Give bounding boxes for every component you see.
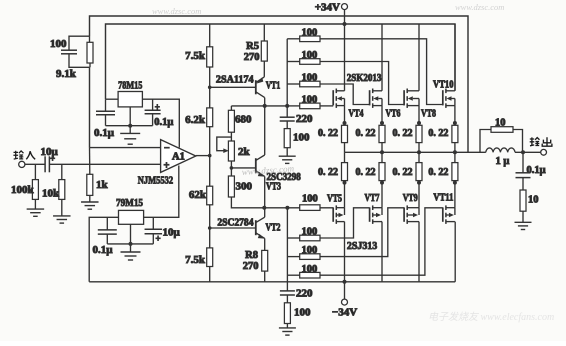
ground (10k)	[61, 199, 63, 216]
resistor 7.5k (upper)	[207, 47, 213, 67]
svg-text:270: 270	[244, 52, 260, 63]
wire: 79M15 output to op-amp V-	[144, 166, 179, 218]
svg-text:VT3: VT3	[266, 182, 281, 193]
svg-text:100: 100	[302, 50, 318, 61]
node: N gate bus bottom junction	[285, 104, 289, 108]
wire: VT6 source	[381, 106, 383, 123]
svg-text:VT6: VT6	[386, 108, 401, 119]
wire: 0.22 to output rail	[381, 143, 383, 153]
ground (100k)	[34, 199, 36, 209]
svg-text:7.5k: 7.5k	[185, 254, 206, 266]
wire: -34V to 79M15 input	[89, 217, 118, 281]
svg-text:10: 10	[495, 118, 506, 129]
resistor 10 (parallel with inductor)	[480, 130, 523, 153]
svg-text:270: 270	[243, 261, 259, 272]
ground (79M15)	[121, 251, 141, 253]
svg-text:www.dzsc.com: www.dzsc.com	[455, 2, 504, 12]
transistor VT6 2SK2013 (N-MOSFET)	[369, 90, 371, 105]
node: VT11 source junction	[453, 181, 457, 185]
svg-text:+: +	[156, 234, 161, 244]
transistor VT3 2SC3298 (NPN)	[255, 158, 257, 173]
capacitor 220 (N gate bus bypass)	[286, 106, 288, 117]
node: P gate bus top junction	[285, 206, 289, 210]
svg-text:10: 10	[528, 195, 539, 206]
svg-text:220: 220	[296, 288, 313, 300]
watermark (faint)	[152, 2, 554, 323]
capacitor 0.1u (78M15 input)	[105, 99, 107, 111]
node: VT3 emitter / VT2 collector junction	[262, 206, 266, 210]
resistor R8 270	[262, 250, 268, 271]
transistor VT2 2SC2784 (NPN)	[255, 220, 257, 235]
wire: 0.22 to output rail	[344, 143, 346, 153]
transistor VT8 2SK2013 (N-MOSFET)	[403, 90, 405, 105]
resistor 0.22 (VT9 source)	[416, 163, 422, 181]
label: output (Chinese)	[530, 137, 552, 146]
node: +34V rail junction at VT4 drain	[343, 22, 347, 26]
svg-text:0.1μ: 0.1μ	[154, 117, 173, 128]
svg-text:2SA1174: 2SA1174	[216, 75, 254, 86]
resistor 100 (P gate row 1)	[300, 205, 320, 211]
wire: P row2 to VT7 gate	[320, 208, 370, 238]
svg-text:VT11: VT11	[433, 192, 453, 203]
node: output rail junction	[453, 150, 457, 154]
transistor VT10 2SK2013 (N-MOSFET)	[442, 90, 444, 105]
resistor 100 (P gate row 4)	[287, 274, 299, 276]
wire: 78M15 ground bus	[106, 125, 153, 127]
resistor 1k (to ground from inverting input)	[87, 174, 93, 195]
svg-text:100k: 100k	[11, 184, 35, 196]
svg-text:2SK2013: 2SK2013	[347, 73, 382, 84]
wire: R8 to -34V rail	[264, 271, 266, 282]
capacitor 10u (input coupling)	[44, 156, 46, 172]
node: output rail junction	[380, 150, 384, 154]
resistor 6.2k	[207, 108, 213, 127]
svg-text:100: 100	[50, 38, 67, 50]
wire: P gate bus vertical	[286, 208, 288, 291]
svg-text:0. 22: 0. 22	[393, 128, 413, 139]
node: output rail junction	[417, 150, 421, 154]
transistor VT4 2SK2013 (N-MOSFET)	[332, 90, 334, 105]
svg-text:VT10: VT10	[433, 80, 454, 91]
ground (78M15)	[120, 132, 140, 134]
power terminal -34V	[344, 282, 346, 300]
resistor 0.22 (VT10 source)	[452, 125, 458, 142]
transistor VT11 2SJ313 (P-MOSFET)	[442, 207, 444, 221]
svg-text:100: 100	[302, 95, 318, 106]
wire: input to coupling cap	[25, 163, 45, 165]
svg-text:www.dzsc.com: www.dzsc.com	[152, 6, 201, 16]
wire: VT10 source	[454, 106, 456, 123]
svg-text:R5: R5	[246, 41, 259, 52]
wire: VT5 drain to -34V rail	[344, 222, 346, 282]
svg-text:VT7: VT7	[365, 193, 380, 204]
wire: VT10 drain to +34V rail	[454, 24, 456, 91]
wire: N row3 to VT6 gate	[320, 84, 370, 105]
resistor 0.22 (VT8 source)	[416, 125, 422, 142]
svg-text:300: 300	[236, 181, 253, 193]
svg-text:0. 22: 0. 22	[428, 128, 448, 139]
node: VT7 source junction	[380, 181, 384, 185]
svg-text:6.2k: 6.2k	[185, 114, 206, 126]
svg-text:100: 100	[294, 307, 311, 319]
resistor 0.22 (VT6 source)	[379, 125, 385, 142]
resistor 100k (input)	[34, 164, 36, 179]
svg-text:62k: 62k	[189, 189, 207, 201]
wire: feedback line from output to inverting input (top)	[90, 16, 469, 152]
svg-text:VT8: VT8	[421, 108, 436, 119]
svg-text:0. 22: 0. 22	[356, 128, 376, 139]
wire: VT5 source to 0.22	[344, 152, 346, 162]
capacitor 220 (P gate bus bypass)	[280, 290, 295, 292]
svg-text:78M15: 78M15	[118, 80, 143, 92]
resistor 100 (N gate row 1)	[287, 38, 300, 40]
wire: output rail	[345, 151, 486, 153]
node: VT8 source junction	[417, 121, 421, 125]
label: input (Chinese)	[13, 151, 35, 160]
svg-text:2k: 2k	[238, 146, 251, 158]
svg-text:NJM5532: NJM5532	[138, 175, 174, 187]
wire: VT4 drain to +34V rail	[344, 24, 346, 91]
svg-text:VT1: VT1	[266, 81, 281, 92]
ground (P bypass)	[286, 324, 288, 328]
svg-text:2SC2784: 2SC2784	[217, 218, 254, 229]
wire: N row1 to VT10 gate	[320, 39, 443, 105]
svg-text:10k: 10k	[42, 188, 60, 200]
input terminal (shu-ru)	[19, 161, 25, 167]
node: 78M15 ground junction	[128, 124, 132, 128]
potentiometer 2k (wiper loop)	[228, 141, 234, 161]
resistor 10k (input)	[61, 164, 63, 179]
wire: 300 bottom to VT3 emitter node	[231, 197, 264, 208]
wire: 2k to 300 and VT3 base node	[230, 161, 232, 176]
node: VT4 source junction	[343, 121, 347, 125]
resistor 0.22 (VT11 source)	[452, 163, 458, 181]
node: VT1 base node	[208, 86, 212, 90]
resistor 100 (P gate row 2)	[287, 237, 299, 239]
wire: +34V supply rail	[106, 24, 456, 99]
resistor 100 (N gate bus bypass)	[286, 121, 288, 129]
regulator 78M15	[118, 92, 142, 107]
node: 79M15 ground junction	[129, 242, 133, 246]
svg-text:VT9: VT9	[403, 193, 418, 204]
svg-text:1 μ: 1 μ	[496, 156, 510, 167]
transistor VT7 2SJ313 (P-MOSFET)	[369, 207, 371, 221]
resistor 300	[228, 176, 234, 197]
node: VT2 base node	[208, 226, 212, 230]
wire: VT11 source to 0.22	[454, 152, 456, 162]
capacitor 100 (feedback, parallel with 9.1k)	[69, 36, 90, 67]
inductor 1u (output)	[486, 148, 515, 152]
wire: P row4 to VT11 gate	[320, 208, 443, 275]
ground (Zobel)	[522, 211, 524, 222]
svg-text:VT2: VT2	[266, 223, 281, 234]
node: VT1/VT3 collector junction	[263, 104, 267, 108]
wire: VT8 drain to +34V rail	[418, 24, 420, 91]
svg-text:9.1k: 9.1k	[56, 68, 77, 80]
wire: VT9 source to 0.22	[418, 152, 420, 162]
svg-text:100: 100	[302, 27, 318, 38]
svg-text:0. 22: 0. 22	[318, 167, 338, 178]
wire: VT6 drain to +34V rail	[381, 24, 383, 91]
wire: -34V supply rail	[89, 281, 455, 283]
node: VT6 source junction	[380, 121, 384, 125]
wire: VT8 source	[418, 106, 420, 123]
node: VT10 source junction	[453, 121, 457, 125]
svg-text:0.1μ: 0.1μ	[527, 165, 546, 176]
svg-text:A1: A1	[172, 152, 185, 163]
transistor VT1 2SA1174 (PNP)	[255, 80, 257, 94]
svg-text:电子发烧友 www.elecfans.com: 电子发烧友 www.elecfans.com	[428, 311, 554, 323]
wire: op-amp output to resistor chain	[196, 155, 210, 157]
resistor 9.1k (feedback)	[87, 42, 93, 63]
svg-text:+: +	[155, 102, 160, 112]
capacitor 0.1u (79M15 input)	[106, 217, 108, 230]
node: VT5 source junction	[343, 181, 347, 185]
wire: +34V to 78M15 input	[106, 98, 119, 100]
resistor 0.22 (VT4 source)	[342, 125, 348, 142]
resistor 62k	[207, 186, 213, 205]
node: -34V rail junction at VT5 drain	[343, 280, 347, 284]
svg-text:0.1μ: 0.1μ	[94, 127, 115, 139]
op-amp A1 NJM5532	[161, 140, 196, 173]
svg-text:−: −	[164, 143, 170, 154]
wire: 79M15 ground bus	[107, 243, 153, 245]
svg-text:0. 22: 0. 22	[318, 128, 338, 139]
wire: VT4 source	[344, 106, 346, 123]
wire: 0.22 to output rail	[454, 143, 456, 153]
svg-text:0.1μ: 0.1μ	[93, 244, 114, 256]
resistor 0.22 (VT7 source)	[379, 163, 385, 181]
capacitor 0.1u (Zobel)	[522, 152, 524, 173]
output terminal (shu-chu)	[541, 149, 547, 155]
ground (1k)	[89, 195, 91, 202]
wire: N gate bus horizontal (VT1 collector node)	[231, 105, 287, 107]
resistor 100 (P gate bus bypass)	[286, 295, 288, 303]
resistor R5 270	[263, 24, 265, 41]
wire: VT11 drain to -34V rail	[454, 222, 456, 282]
svg-text:100: 100	[302, 193, 318, 204]
capacitor 10u (79M15 output)	[152, 217, 154, 229]
svg-text:0. 22: 0. 22	[356, 167, 376, 178]
resistor 100 (N gate row 4)	[287, 105, 300, 107]
node: output node junction	[521, 150, 525, 154]
resistor 100 (N gate row 3)	[287, 83, 300, 85]
svg-text:79M15: 79M15	[116, 197, 143, 209]
ground (N bypass)	[286, 148, 288, 157]
wire: VT7 source to 0.22	[381, 152, 383, 162]
wire: N gate bus vertical	[286, 39, 288, 106]
regulator 79M15	[119, 210, 144, 224]
wire: N row2 to VT8 gate	[320, 62, 404, 105]
resistor 0.22 (VT5 source)	[342, 163, 348, 181]
resistor 680	[230, 106, 232, 110]
wire: chain column	[209, 24, 211, 282]
svg-text:1k: 1k	[96, 179, 109, 191]
capacitor 0.1u (78M15 output)	[152, 99, 154, 110]
svg-text:+: +	[164, 161, 170, 172]
resistor 100 (N gate row 2)	[287, 61, 300, 63]
svg-text:7.5k: 7.5k	[185, 50, 206, 62]
wire: VT7 drain to -34V rail	[381, 222, 383, 282]
wire: inverting input node to 1k	[89, 148, 91, 175]
wire: VT3 emitter node to P row1 and VT5 gate	[264, 207, 333, 209]
svg-text:+34V: +34V	[315, 2, 340, 14]
transistor VT5 2SJ313 (P-MOSFET)	[332, 207, 334, 221]
svg-text:680: 680	[235, 114, 252, 126]
wire: coupling cap to op-amp non-inverting input	[49, 163, 160, 165]
node: op-amp output node	[208, 154, 212, 158]
svg-text:10μ: 10μ	[163, 227, 181, 239]
svg-text:−34V: −34V	[332, 307, 357, 319]
resistor 7.5k (lower)	[207, 248, 213, 267]
svg-text:100: 100	[293, 132, 310, 144]
resistor 10 (Zobel)	[522, 178, 524, 190]
svg-text:2SJ313: 2SJ313	[347, 241, 377, 252]
node: VT9 source junction	[417, 181, 421, 185]
power terminal +34V	[344, 9, 346, 24]
svg-text:220: 220	[296, 113, 313, 125]
wire: N row4 to VT4 gate	[320, 105, 333, 107]
svg-text:VT5: VT5	[327, 194, 342, 205]
svg-text:0. 22: 0. 22	[393, 167, 413, 178]
wire: 0.22 to output rail	[418, 143, 420, 153]
wire: P row3 to VT9 gate	[320, 208, 404, 257]
svg-text:0. 22: 0. 22	[428, 167, 448, 178]
wire: inductor to output terminal	[515, 151, 541, 153]
svg-text:100: 100	[302, 73, 318, 84]
transistor VT9 2SJ313 (P-MOSFET)	[403, 207, 405, 221]
svg-text:+: +	[50, 153, 55, 163]
wire: VT9 drain to -34V rail	[418, 222, 420, 282]
wire: inverting input	[90, 147, 161, 149]
svg-text:VT4: VT4	[349, 108, 365, 119]
wire: 680 to 2k	[230, 132, 232, 141]
svg-text:R8: R8	[245, 250, 258, 261]
wire: 78M15 output to op-amp V+	[142, 99, 179, 147]
resistor 100 (P gate row 3)	[287, 256, 299, 258]
